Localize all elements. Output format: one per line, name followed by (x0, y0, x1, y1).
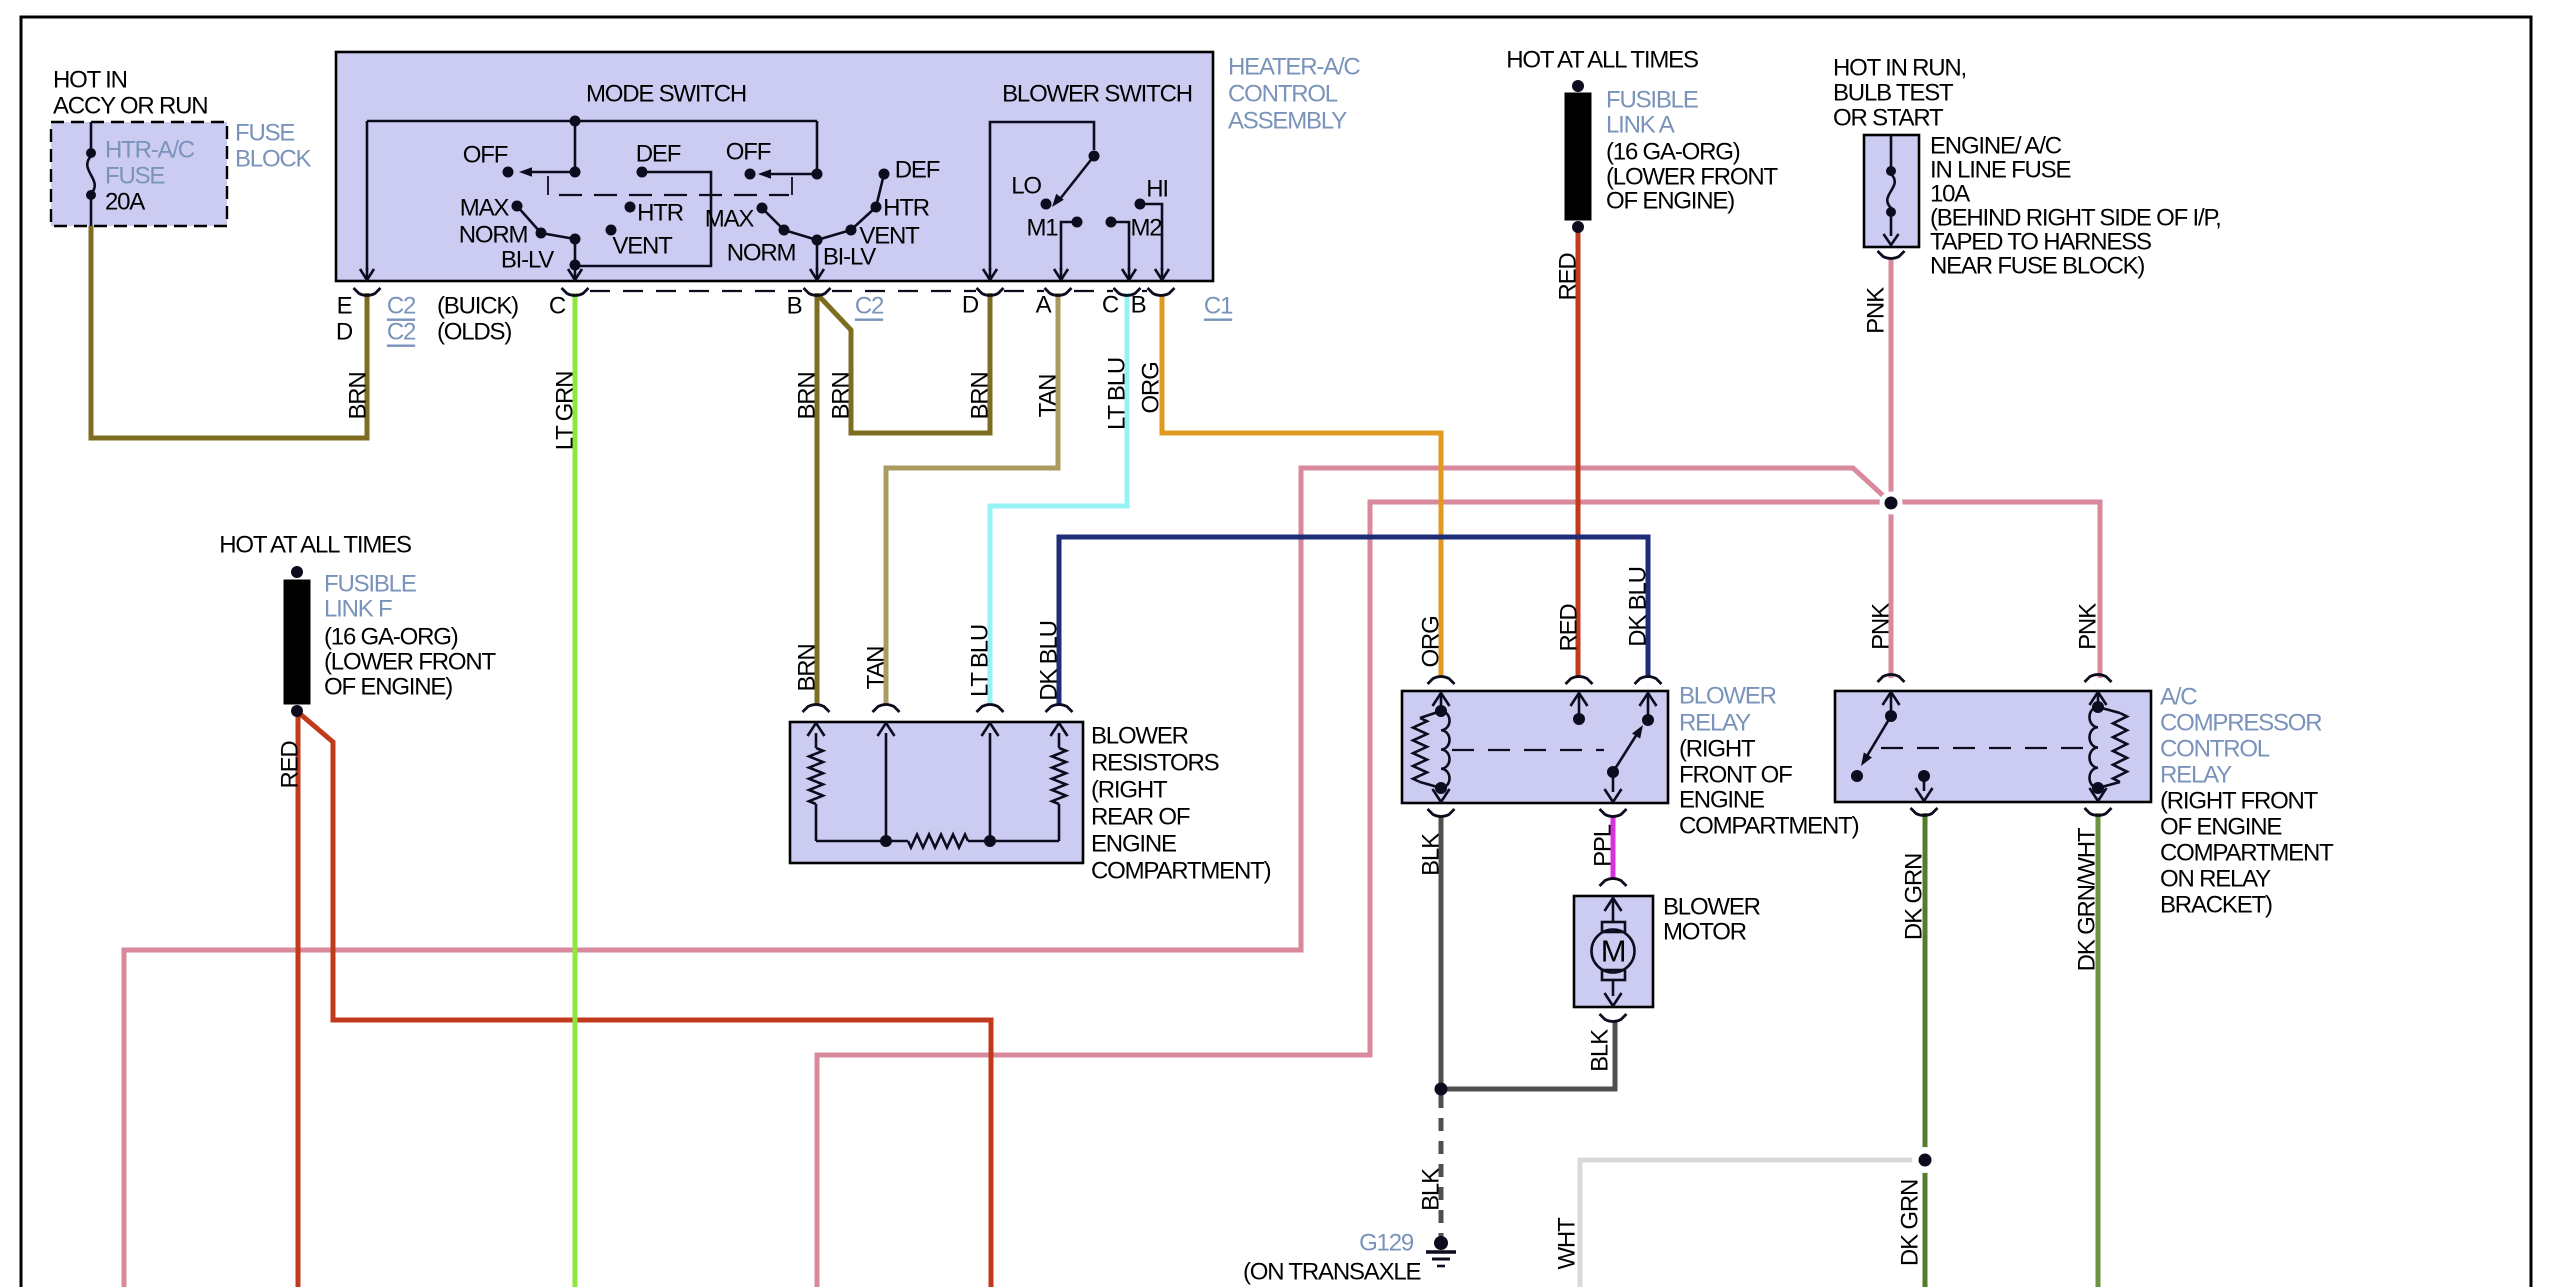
mode switch section 2 contact fan (757, 203, 768, 214)
svg-text:A: A (1036, 292, 1052, 319)
svg-text:OFF: OFF (726, 139, 771, 166)
control assembly connector brackets (354, 288, 381, 296)
engine A/C in-line fuse internals (1890, 135, 1893, 168)
svg-text:(OLDS): (OLDS) (437, 319, 511, 346)
svg-text:IN LINE FUSE: IN LINE FUSE (1930, 157, 2070, 184)
svg-text:OFF: OFF (463, 142, 508, 169)
svg-text:BLOCK: BLOCK (235, 146, 312, 173)
mode switch mech tick 1 (547, 176, 549, 195)
blower motor brush bottom (1602, 970, 1625, 980)
blower switch pivot arm (1089, 151, 1100, 162)
svg-text:BRN: BRN (794, 372, 821, 419)
A/C relay coil (2090, 707, 2099, 788)
A/C relay coil resistor (2098, 707, 2120, 713)
blower resistor A leg (1058, 733, 1061, 748)
svg-text:G129: G129 (1359, 1230, 1414, 1257)
blower relay DK BLU terminal (1635, 677, 1662, 685)
wire PNK: junction down to A/C relay left terminal (1889, 503, 1894, 678)
blower motor armature M (1592, 930, 1635, 973)
svg-text:B: B (787, 293, 802, 320)
svg-text:(RIGHT: (RIGHT (1091, 777, 1168, 804)
svg-text:OF ENGINE): OF ENGINE) (1606, 188, 1734, 215)
junction dot PNK (1880, 492, 1903, 515)
svg-text:WHT: WHT (1554, 1217, 1581, 1270)
svg-text:RESISTORS: RESISTORS (1091, 750, 1219, 777)
svg-text:FRONT OF: FRONT OF (1679, 762, 1792, 789)
svg-text:(BUICK): (BUICK) (437, 293, 518, 320)
svg-text:NEAR FUSE BLOCK): NEAR FUSE BLOCK) (1930, 253, 2144, 280)
svg-text:BLOWER SWITCH: BLOWER SWITCH (1002, 81, 1192, 108)
svg-text:(16 GA-ORG): (16 GA-ORG) (324, 624, 458, 651)
svg-text:HTR-A/C: HTR-A/C (105, 137, 195, 164)
svg-text:VENT: VENT (612, 233, 673, 260)
svg-text:FUSIBLE: FUSIBLE (324, 571, 416, 598)
svg-text:RELAY: RELAY (1679, 710, 1751, 737)
blower resistor D leg (815, 733, 818, 748)
wire PPL blower relay to blower motor (1611, 816, 1616, 879)
svg-text:OF ENGINE: OF ENGINE (2160, 814, 2281, 841)
svg-text:M: M (1601, 934, 1626, 969)
blower relay coil resistor (1420, 711, 1441, 718)
svg-text:COMPARTMENT): COMPARTMENT) (1091, 858, 1271, 885)
svg-text:20A: 20A (105, 189, 145, 216)
blower switch HI contact to terminal B (1135, 199, 1146, 210)
svg-text:LINK A: LINK A (1606, 112, 1675, 139)
svg-text:DK GRN: DK GRN (1897, 1180, 1924, 1266)
A/C relay DK GRN contact (1918, 770, 1930, 782)
svg-text:LT BLU: LT BLU (967, 625, 994, 697)
blower motor brush top (1602, 922, 1625, 932)
A/C relay dashed divider (1881, 747, 2086, 749)
svg-text:ORG: ORG (1418, 616, 1445, 667)
svg-text:NORM: NORM (727, 240, 796, 267)
junction dot DK GRN / WHT (1912, 1147, 1938, 1173)
svg-text:TAN: TAN (863, 647, 890, 690)
svg-text:RED: RED (1556, 604, 1583, 652)
svg-text:COMPRESSOR: COMPRESSOR (2160, 710, 2322, 737)
svg-text:TAPED TO HARNESS: TAPED TO HARNESS (1930, 229, 2151, 256)
svg-text:DK GRN: DK GRN (1901, 854, 1928, 940)
svg-text:A/C: A/C (2160, 684, 2197, 711)
wire PNK: upper branch from junction via diagonal to bottom left (124, 468, 1889, 1287)
svg-text:BRACKET): BRACKET) (2160, 892, 2272, 919)
svg-text:(ON TRANSAXLE: (ON TRANSAXLE (1243, 1259, 1421, 1286)
mode switch section 1 HTR VENT contacts (625, 202, 636, 213)
svg-text:CONTROL: CONTROL (1228, 81, 1338, 108)
wire WHT branch from DK GRN (1580, 1160, 1925, 1287)
svg-text:ORG: ORG (1138, 362, 1165, 413)
HTR-A/C fuse symbol (90, 122, 93, 153)
svg-text:10A: 10A (1930, 181, 1970, 208)
blower motor bottom arrow (1612, 980, 1615, 996)
mode switch section 2 pivot and OFF contact (812, 169, 823, 180)
blower motor box (1574, 896, 1653, 1007)
blower resistor C leg (885, 733, 888, 841)
svg-text:RED: RED (1555, 253, 1582, 301)
junction dot BLK (1435, 1083, 1448, 1096)
svg-text:FUSIBLE: FUSIBLE (1606, 87, 1698, 114)
svg-text:FUSE: FUSE (235, 120, 294, 147)
svg-text:DK BLU: DK BLU (1036, 621, 1063, 701)
wire DK GRN/WHT from A/C relay down off page (2096, 813, 2101, 1287)
svg-text:LT BLU: LT BLU (1104, 358, 1131, 430)
blower resistor B leg (989, 733, 992, 841)
svg-text:ON RELAY: ON RELAY (2160, 866, 2271, 893)
svg-text:M1: M1 (1027, 215, 1059, 242)
svg-text:BLK: BLK (1587, 1029, 1614, 1072)
svg-text:MAX: MAX (705, 206, 755, 233)
svg-text:C2: C2 (855, 293, 884, 320)
A/C relay left PNK terminal (1878, 675, 1905, 683)
wire BRN branch linking terminals B and D (818, 293, 990, 433)
wire DK BLU from blower resistor A to blower relay (1059, 537, 1648, 705)
blower switch feed rectangle (990, 122, 1094, 270)
svg-text:CONTROL: CONTROL (2160, 736, 2270, 763)
svg-text:HOT IN RUN,: HOT IN RUN, (1833, 55, 1966, 82)
A/C relay right PNK terminal (2085, 675, 2112, 683)
connector dashed line C2/C1 (590, 290, 802, 292)
blower relay ORG terminal (1428, 677, 1455, 685)
svg-text:C: C (1102, 292, 1119, 319)
wire RED from fusible link F straight down (296, 714, 301, 1287)
blower switch M1 contact to terminal A (1072, 217, 1083, 228)
svg-text:DK BLU: DK BLU (1625, 567, 1652, 647)
blower relay BLK exit (1440, 788, 1443, 792)
svg-text:MOTOR: MOTOR (1663, 919, 1747, 946)
svg-text:FUSE: FUSE (105, 163, 164, 190)
blower relay switch arm (1607, 766, 1619, 778)
svg-text:(LOWER FRONT: (LOWER FRONT (1606, 164, 1778, 191)
mode switch bus wire (367, 120, 817, 123)
svg-text:BRN: BRN (828, 372, 855, 419)
svg-text:DK GRN/WHT: DK GRN/WHT (2074, 827, 2101, 971)
fusible link F (291, 566, 303, 578)
svg-text:BLOWER: BLOWER (1091, 723, 1189, 750)
svg-text:VENT: VENT (859, 223, 920, 250)
svg-text:PPL: PPL (1590, 824, 1617, 867)
svg-text:ENGINE: ENGINE (1091, 831, 1176, 858)
blower relay coil (1441, 711, 1450, 788)
svg-text:COMPARTMENT: COMPARTMENT (2160, 840, 2334, 867)
svg-text:COMPARTMENT): COMPARTMENT) (1679, 813, 1859, 840)
wire ORG from C1-B terminal to blower relay (1162, 294, 1441, 678)
engine A/C in-line fuse box (1864, 135, 1919, 247)
svg-text:E: E (337, 293, 352, 320)
wire BRN terminal B down to blower resistor D (815, 293, 820, 705)
blower motor terminals (1600, 879, 1627, 887)
blower relay dashed divider (1452, 749, 1604, 751)
svg-text:C2: C2 (387, 319, 416, 346)
svg-text:ACCY OR RUN: ACCY OR RUN (53, 93, 207, 120)
blower switch LO contact (1041, 199, 1052, 210)
svg-text:LT GRN: LT GRN (552, 372, 579, 451)
wire BLK from blower relay down to junction (1439, 816, 1444, 1089)
ground G129 (1434, 1236, 1448, 1250)
svg-text:ENGINE: ENGINE (1679, 787, 1764, 814)
svg-text:BI-LV: BI-LV (501, 247, 554, 274)
svg-text:MAX: MAX (460, 195, 510, 222)
svg-text:(RIGHT: (RIGHT (1679, 736, 1756, 763)
wire RED from fusible link A to blower relay (1576, 232, 1581, 678)
wire BRN from fuse block to terminal E (91, 226, 367, 438)
wire PNK: in-line fuse down to junction (1889, 258, 1894, 503)
svg-text:(BEHIND RIGHT SIDE OF I/P,: (BEHIND RIGHT SIDE OF I/P, (1930, 205, 2221, 232)
svg-text:BLOWER: BLOWER (1663, 894, 1761, 921)
svg-text:HI: HI (1146, 176, 1168, 203)
svg-text:PNK: PNK (2075, 603, 2102, 650)
svg-text:LINK F: LINK F (324, 596, 392, 623)
svg-text:REAR OF: REAR OF (1091, 804, 1190, 831)
wire BLK from junction to blower motor (1441, 1022, 1615, 1089)
svg-text:RED: RED (277, 741, 304, 789)
heater-A/C control assembly box (336, 52, 1213, 281)
blower resistors terminals (803, 705, 830, 713)
svg-text:BRN: BRN (345, 372, 372, 419)
svg-text:LO: LO (1011, 173, 1041, 200)
svg-text:ASSEMBLY: ASSEMBLY (1228, 108, 1347, 135)
fusible link A (1572, 80, 1584, 92)
svg-text:B: B (1131, 292, 1146, 319)
svg-text:PNK: PNK (1868, 603, 1895, 650)
wire RED branch from fusible link F (299, 713, 991, 1287)
A/C compressor control relay box (1835, 691, 2151, 802)
blower switch M2 contact to terminal C (1106, 217, 1117, 228)
wire DK GRN from A/C relay down off page (1923, 813, 1928, 1287)
svg-text:BRN: BRN (794, 644, 821, 691)
svg-text:ENGINE/ A/C: ENGINE/ A/C (1930, 133, 2062, 160)
svg-text:DEF: DEF (636, 141, 681, 168)
svg-text:(16 GA-ORG): (16 GA-ORG) (1606, 139, 1740, 166)
mode switch section 1 pivot and OFF contact (570, 167, 581, 178)
A/C relay DK GRN/WHT exit (2097, 788, 2100, 791)
svg-text:TAN: TAN (1035, 375, 1062, 418)
wire BLK dashed to ground G129 (1439, 1095, 1444, 1238)
svg-text:C1: C1 (1204, 293, 1233, 320)
svg-text:HEATER-A/C: HEATER-A/C (1228, 54, 1360, 81)
fuse block (dashed box) (51, 122, 227, 226)
svg-text:(RIGHT FRONT: (RIGHT FRONT (2160, 788, 2319, 815)
svg-text:BULB TEST: BULB TEST (1833, 80, 1954, 107)
svg-text:RELAY: RELAY (2160, 762, 2232, 789)
svg-text:MODE SWITCH: MODE SWITCH (586, 81, 746, 108)
svg-text:OF ENGINE): OF ENGINE) (324, 674, 452, 701)
wire TAN from terminal A to blower resistor C (886, 293, 1058, 705)
A/C relay switch arm (open) (1867, 716, 1891, 756)
mode switch section 1 DEF contact and loop to BI-LV (637, 167, 648, 178)
blower resistors box (790, 722, 1083, 863)
mode switch section 1 contacts MAX NORM BI-LV (512, 201, 523, 212)
blower resistor middle element (880, 835, 892, 847)
svg-text:OR START: OR START (1833, 105, 1944, 132)
wire LT GRN from terminal C down off page (573, 293, 578, 1287)
svg-text:NORM: NORM (459, 222, 528, 249)
blower relay RED terminal (1566, 677, 1593, 685)
wire PNK: horizontal through junction to A/C relay right terminal and branch to bottom (817, 502, 2100, 1287)
control assembly terminal arrows (366, 268, 369, 278)
wire LT BLU from terminal C to blower resistor B (990, 293, 1127, 705)
mode switch ganged dashed link (559, 194, 789, 196)
svg-text:(LOWER FRONT: (LOWER FRONT (324, 649, 496, 676)
svg-text:M2: M2 (1131, 215, 1163, 242)
svg-text:C2: C2 (387, 293, 416, 320)
svg-text:D: D (336, 319, 353, 346)
svg-text:D: D (962, 292, 979, 319)
svg-text:BLK: BLK (1418, 833, 1445, 876)
mode switch mech tick 2 (791, 177, 793, 195)
svg-text:BLOWER: BLOWER (1679, 683, 1777, 710)
svg-text:HTR: HTR (637, 200, 684, 227)
svg-text:C: C (549, 293, 566, 320)
blower relay box (1402, 691, 1668, 803)
svg-text:HTR: HTR (883, 195, 930, 222)
svg-text:PNK: PNK (1863, 287, 1890, 334)
svg-text:HOT AT ALL TIMES: HOT AT ALL TIMES (219, 532, 411, 559)
svg-text:BLK: BLK (1418, 1168, 1445, 1211)
svg-text:DEF: DEF (895, 157, 940, 184)
svg-text:HOT AT ALL TIMES: HOT AT ALL TIMES (1506, 47, 1698, 74)
svg-text:HOT IN: HOT IN (53, 67, 127, 94)
svg-text:BRN: BRN (967, 372, 994, 419)
